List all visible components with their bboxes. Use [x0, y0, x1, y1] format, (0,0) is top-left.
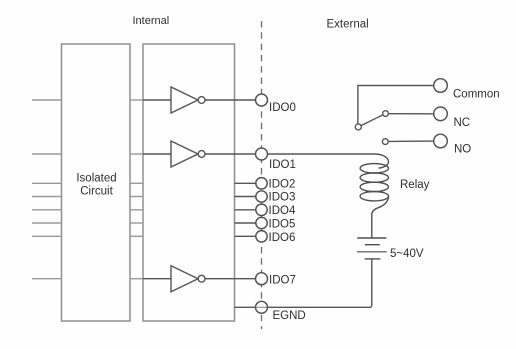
- node IDO3: [256, 191, 267, 202]
- svg-text:IDO2: IDO2: [269, 179, 296, 191]
- node EGND: [256, 301, 268, 313]
- switch pivot: [355, 124, 361, 130]
- svg-text:5~40V: 5~40V: [390, 248, 424, 260]
- wire box1-box2 row 0: [130, 99, 143, 101]
- node IDO0: [256, 94, 268, 106]
- terminal Common: [434, 79, 448, 93]
- wire IDO6 stub: [235, 235, 256, 237]
- terminal NC: [434, 107, 448, 121]
- wire IDO1 to relay coil: [268, 153, 375, 155]
- svg-text:Internal: Internal: [133, 15, 170, 27]
- wire EGND through-node segment: [256, 306, 268, 308]
- node IDO4: [256, 204, 267, 215]
- wire box1-box2 row 6: [130, 235, 143, 237]
- isolated circuit box U1: [62, 44, 131, 321]
- svg-text:Relay: Relay: [400, 179, 430, 191]
- svg-text:IDO0: IDO0: [269, 102, 296, 114]
- svg-text:EGND: EGND: [273, 310, 306, 322]
- wire IDO3 stub: [235, 196, 256, 198]
- wire battery to EGND: [266, 259, 372, 307]
- wire input row 1: [32, 153, 62, 155]
- wire NO: [388, 140, 434, 142]
- node IDO6: [256, 231, 267, 242]
- switch NO contact dot: [382, 139, 388, 145]
- svg-text:External: External: [327, 18, 369, 30]
- inverter gate G2 (IDO1): [143, 141, 256, 167]
- wire box1-box2 row 4: [130, 209, 143, 211]
- svg-text:Circuit: Circuit: [80, 186, 113, 198]
- wire box1-box2 row 1: [130, 153, 143, 155]
- battery BT1: [357, 238, 387, 259]
- wire input row 0: [32, 99, 62, 101]
- inverter gate G1 (IDO0): [143, 87, 256, 113]
- node IDO5: [256, 217, 267, 228]
- wire NC: [388, 113, 433, 115]
- wire IDO2 stub: [235, 182, 256, 184]
- terminal NO: [434, 134, 448, 148]
- node IDO1: [256, 148, 268, 160]
- svg-text:IDO5: IDO5: [269, 218, 296, 230]
- wire input row 7: [32, 278, 62, 280]
- wire EGND stub: [235, 306, 256, 308]
- wire box1-box2 row 2: [130, 182, 143, 184]
- switch SW1 common wire: [358, 86, 434, 124]
- svg-text:NC: NC: [454, 117, 471, 129]
- inverter gate G3 (IDO7): [143, 266, 256, 292]
- dashed internal/external boundary: [261, 21, 263, 329]
- svg-text:Common: Common: [453, 89, 500, 101]
- switch arm: [361, 115, 383, 126]
- node IDO2: [256, 178, 267, 189]
- wire box1-box2 row 3: [130, 196, 143, 198]
- switch NC contact dot: [383, 111, 389, 117]
- wire input row 2: [32, 182, 62, 184]
- svg-text:IDO7: IDO7: [269, 275, 296, 287]
- wire IDO4 stub: [235, 209, 256, 211]
- wire input row 6: [32, 235, 62, 237]
- buffer box U2: [143, 44, 235, 321]
- svg-text:Isolated: Isolated: [76, 172, 116, 184]
- wire box1-box2 row 5: [130, 222, 143, 224]
- wire IDO5 stub: [235, 222, 256, 224]
- wire input row 5: [32, 222, 62, 224]
- svg-text:IDO4: IDO4: [269, 205, 296, 217]
- wire input row 3: [32, 196, 62, 198]
- wire input row 4: [32, 209, 62, 211]
- svg-text:IDO1: IDO1: [269, 159, 296, 171]
- svg-text:IDO6: IDO6: [269, 232, 296, 244]
- svg-text:NO: NO: [454, 143, 471, 155]
- wire box1-box2 row 7: [130, 278, 143, 280]
- svg-text:IDO3: IDO3: [269, 192, 296, 204]
- relay coil L1: [360, 154, 388, 238]
- node IDO7: [256, 273, 268, 285]
